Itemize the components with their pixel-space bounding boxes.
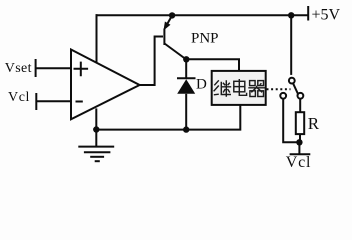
wire output node to Vcl terminal — [298, 142, 300, 154]
op-amp plus input marker — [74, 62, 89, 77]
label relay 继 — [214, 80, 232, 97]
svg-text:Vcl: Vcl — [8, 90, 30, 105]
label +5V — [312, 7, 341, 24]
label Vset — [5, 61, 32, 76]
wire collector to diode cathode — [185, 59, 187, 78]
label R — [308, 114, 320, 133]
wire top +5V rail — [96, 14, 309, 16]
diode D triangle — [177, 79, 195, 94]
svg-text:Vset: Vset — [5, 61, 32, 76]
terminal Vset — [35, 59, 37, 77]
relay K1 coil box — [212, 71, 266, 105]
wire right throw to resistor — [299, 99, 301, 113]
svg-text:R: R — [308, 114, 320, 133]
wire rail to contact common — [290, 15, 292, 75]
label relay 电 — [234, 79, 247, 95]
wire op-amp V+ supply — [96, 14, 98, 62]
label PNP — [191, 30, 219, 46]
svg-text:D: D — [196, 77, 207, 93]
wire diode anode down — [185, 94, 187, 130]
svg-text:+5V: +5V — [312, 7, 341, 24]
op-amp minus input marker — [76, 101, 83, 103]
svg-text:Vcl: Vcl — [286, 154, 312, 171]
ground — [78, 147, 114, 162]
svg-text:PNP: PNP — [191, 30, 219, 46]
node op-amp ground junction — [93, 126, 99, 132]
resistor R — [296, 112, 304, 134]
label Vcl output — [286, 154, 312, 171]
relay contact blade — [293, 83, 298, 94]
wire op-amp output to transistor base — [139, 37, 164, 86]
node rail contact junction — [288, 12, 294, 18]
relay contact right throw circle — [298, 93, 304, 99]
wire dotted actuation link — [267, 88, 291, 90]
wire bottom return — [96, 105, 240, 130]
label relay 器 — [248, 81, 265, 97]
transistor Q1 emitter with arrow — [164, 16, 172, 31]
diode D cathode bar — [177, 77, 196, 79]
wire Vset to plus input — [36, 67, 71, 69]
relay contact left throw circle — [280, 93, 286, 99]
node collector junction — [183, 56, 189, 62]
node diode anode junction — [183, 126, 189, 132]
op-amp U1 — [71, 50, 140, 120]
wire Vcl to minus input — [36, 100, 71, 102]
node output junction — [296, 139, 302, 145]
transistor Q1 PNP base bar — [163, 29, 165, 46]
wire resistor to output node — [299, 134, 301, 142]
wire op-amp ground pin — [95, 108, 97, 146]
power terminal +5V — [307, 6, 309, 21]
node emitter to rail junction — [169, 12, 175, 18]
label D — [196, 77, 207, 93]
transistor Q1 collector — [165, 44, 187, 60]
relay contact common pole circle — [289, 78, 295, 84]
label Vcl input — [8, 90, 30, 105]
wire left throw to output node — [283, 99, 299, 143]
wire collector to relay coil top — [186, 59, 239, 71]
terminal Vcl output — [290, 153, 311, 155]
terminal Vcl input — [35, 93, 37, 110]
